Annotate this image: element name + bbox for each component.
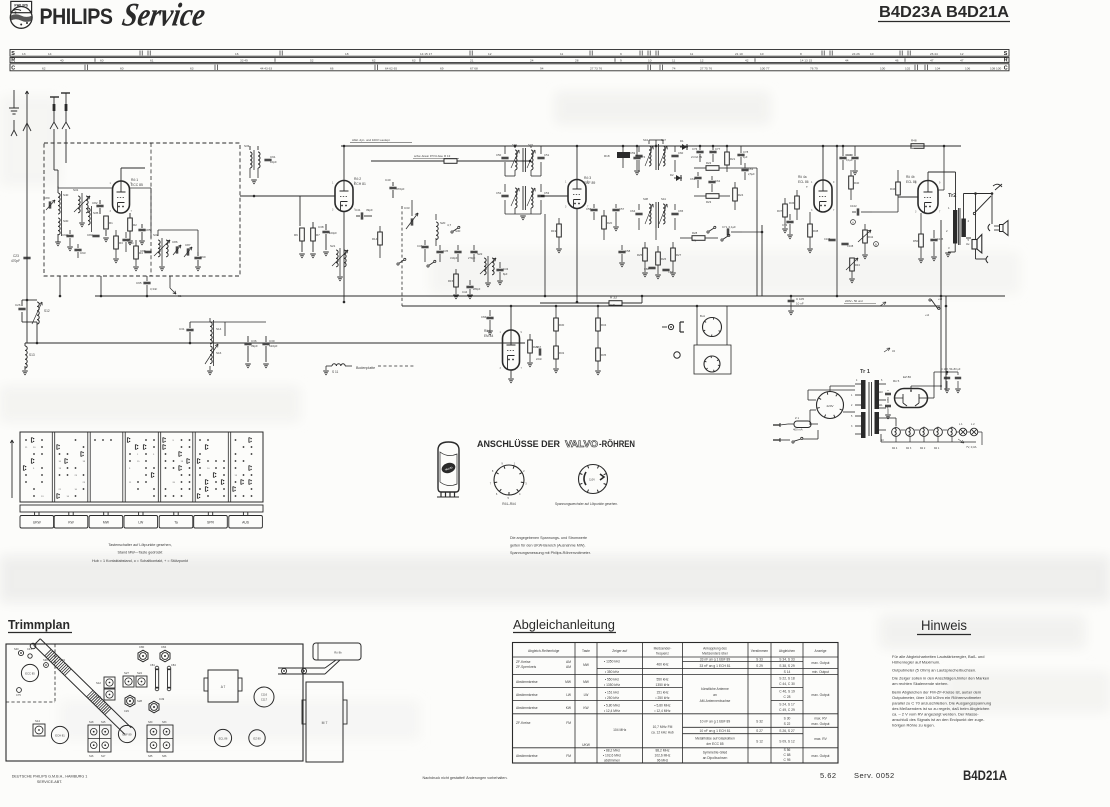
svg-text:Metallhülse auf Glaskolben: Metallhülse auf Glaskolben [695,737,735,741]
svg-text:Outputmeter (5 Ohm) an Lautspr: Outputmeter (5 Ohm) an Lautsprecherbuchs… [892,668,976,673]
resistor R35 [596,348,601,361]
resistor R29 grid [528,340,533,353]
socket Bu1 tape [703,318,722,337]
svg-text:460 kHz: 460 kHz [656,663,668,667]
svg-text:C74: C74 [640,155,646,159]
svg-text:Meßsenders über: Meßsenders über [702,652,729,656]
svg-text:R34: R34 [601,323,607,327]
grid resistor R36 [795,196,800,209]
svg-text:10: 10 [648,58,652,62]
IF can A7 [208,670,238,702]
svg-text:Abstimmkreise: Abstimmkreise [516,706,538,710]
switch assembly lower bar [20,505,263,512]
FM tuner compartment dashed [54,644,56,702]
FM dipole antenna terminals [50,96,59,98]
svg-text:Nachdruck nicht gestattet! Änd: Nachdruck nicht gestattet! Änderungen vo… [422,776,507,780]
svg-text:S16: S16 [89,755,94,758]
svg-text:S 24, S 17: S 24, S 17 [779,703,795,707]
svg-text:R38: R38 [813,229,819,233]
speaker switch contact [976,196,992,212]
volume feed resistor R28 [692,236,705,241]
svg-text:• 5,80 MHz: • 5,80 MHz [654,704,671,708]
circle marker A [851,220,856,225]
svg-text:R22: R22 [706,161,712,165]
svg-text:ECL 86: ECL 86 [906,180,917,184]
svg-text:2,5µF: 2,5µF [748,172,755,176]
svg-text:R32: R32 [559,351,565,355]
trimmer C49 [149,701,159,713]
mains plug prongs [773,424,780,426]
right vertical feeds [940,220,942,390]
capacitor C95 below tuner [143,281,150,283]
svg-text:10 nF: 10 nF [796,302,804,306]
svg-text:C67: C67 [536,345,542,349]
tube U1 Ro1 ECC85 FM tuner triode [113,181,130,213]
svg-text:B4D21A: B4D21A [963,768,1007,783]
svg-text:abstimmen: abstimmen [604,759,620,763]
oscillator section dashed divider [150,143,152,276]
svg-text:21 10: 21 10 [735,52,743,56]
svg-text:L 1: L 1 [959,422,963,426]
svg-text:Outputmeter, über 100 kOhm ein: Outputmeter, über 100 kOhm ein Röhrenvol… [892,695,982,700]
svg-text:R18: R18 [604,154,610,158]
long AVC rail [95,295,1005,297]
svg-text:ECH 81: ECH 81 [55,734,65,738]
wires detector to AF [756,200,758,296]
svg-text:C61: C61 [690,177,696,181]
svg-text:21: 21 [470,58,474,62]
svg-text:24 26: 24 26 [852,52,860,56]
svg-text:11: 11 [672,58,675,62]
resistor R32 [554,346,559,359]
svg-text:C78: C78 [743,150,749,154]
svg-text:220V: 220V [826,404,833,408]
svg-text:KW: KW [68,521,74,525]
svg-text:40: 40 [60,58,64,62]
svg-text:LW: LW [138,521,144,525]
svg-text:Rö 8b: Rö 8b [334,651,342,655]
coil S35 second FM section [88,208,90,225]
svg-text:Service: Service [120,0,209,33]
resistor R18 filled [617,152,630,158]
svg-text:28: 28 [575,58,579,62]
svg-text:an: an [713,693,717,697]
trimmer C87 [186,248,188,255]
tuning gang C33 [410,218,412,225]
svg-text:max. Output: max. Output [812,754,830,758]
svg-text:C108: C108 [847,244,854,248]
svg-text:10: 10 [760,52,764,56]
capacitor C74 [633,156,640,158]
svg-text:EZ 80: EZ 80 [903,375,911,379]
svg-text:Abkl. dyn. und 100V Lautspr.: Abkl. dyn. und 100V Lautspr. [352,138,391,142]
screen feed resistor R13 [371,160,444,162]
svg-text:106: 106 [965,66,970,70]
svg-text:R3: R3 [119,241,123,245]
svg-text:Die Zeiger sollen in den Ansch: Die Zeiger sollen in den Anschlägen,hint… [892,676,989,681]
svg-text:11: 11 [690,52,693,56]
svg-text:C80: C80 [44,196,50,200]
svg-text:C50: C50 [496,153,502,157]
svg-text:33 nF an g 1 ECH 81: 33 nF an g 1 ECH 81 [700,664,731,668]
capacitor C30 [262,342,269,344]
svg-text:27 73 76: 27 73 76 [590,66,602,70]
svg-text:C: C [1004,66,1008,72]
svg-text:ZF-Sperrkreis: ZF-Sperrkreis [516,665,536,669]
svg-text:C38: C38 [318,225,324,229]
pickup plug symbol [668,324,673,329]
svg-text:S 33: S 33 [756,658,763,662]
svg-text:Die angegebenen Spannungs- und: Die angegebenen Spannungs- und Stromwert… [510,536,587,540]
speaker switch jack [993,184,1002,187]
svg-text:550 kHz: 550 kHz [656,678,668,682]
capacitor C40 470pF [389,186,396,188]
svg-text:S: S [1004,51,1008,57]
trimmer C75 on chassis [17,688,22,693]
capacitor C77 [709,150,716,152]
svg-text:S12: S12 [96,681,101,685]
svg-text:S44: S44 [643,138,648,142]
capacitor C103 [839,156,846,158]
cathode resistor R50 [919,234,924,247]
svg-text:S 09, S 12: S 09, S 12 [779,740,795,744]
svg-text:Abstimmkreise: Abstimmkreise [516,680,538,684]
svg-text:• 550 kHz: • 550 kHz [605,678,620,682]
svg-text:R37: R37 [777,209,783,213]
svg-text:S 30: S 30 [784,717,791,721]
volume pot R42 [863,230,868,243]
svg-text:R35: R35 [601,353,607,357]
tube U5 Ro5 EZ80 rectifier [895,389,928,408]
svg-text:MW: MW [583,680,590,684]
svg-text:S20: S20 [440,221,446,225]
svg-text:27 75 76: 27 75 76 [700,66,712,70]
svg-text:C85: C85 [145,228,151,232]
external loudspeaker symbol [1000,225,1004,232]
tube U3 Ro3 EBF89 IF amp [568,180,586,209]
capacitor C76 [696,150,703,152]
svg-text:R: R [11,57,15,63]
svg-text:C116: C116 [261,693,268,697]
svg-text:C107: C107 [824,237,831,241]
alignment table grid [513,643,839,764]
capacitor C43 [496,268,503,270]
svg-text:C59: C59 [630,151,636,155]
EBF89 cathode wiring [576,209,578,302]
svg-text:470pF: 470pF [11,259,20,263]
svg-text:R 13: R 13 [444,154,451,158]
wire anode ECC85 [120,168,122,181]
svg-text:+13: +13 [938,298,943,301]
svg-text:gelten für den UKW-Bereich (Au: gelten für den UKW-Bereich (Ausnahme MW)… [510,544,586,548]
svg-text:10: 10 [870,52,874,56]
svg-text:Symmetrie-Glied: Symmetrie-Glied [703,751,728,755]
svg-text:R30: R30 [559,323,565,327]
capacitor C61 [694,176,701,178]
svg-text:64 62 65: 64 62 65 [385,66,397,70]
keyboard switch assembly frame [20,432,263,502]
svg-text:AUS: AUS [242,521,250,525]
svg-text:Für alle Abgleicharbeiten Laut: Für alle Abgleicharbeiten Lautstärkeregl… [892,654,985,659]
tube U4b Ro4 ECL86 pentode [918,181,938,214]
svg-text:510pF: 510pF [269,344,278,348]
svg-text:C62: C62 [715,179,721,183]
svg-text:AM-Antennenbuchse: AM-Antennenbuchse [700,699,731,703]
svg-text:S15: S15 [101,721,106,724]
svg-text:R28: R28 [692,231,698,235]
svg-text:S33: S33 [244,144,250,148]
capacitor C92 [66,234,73,236]
heater bus [880,434,882,442]
svg-text:VALVO: VALVO [565,439,598,449]
speaker feed wires [975,194,977,240]
svg-text:Hub = 1 Kontaktabstand, o = Sc: Hub = 1 Kontaktabstand, o = Schaltkontak… [92,559,188,563]
svg-text:12: 12 [488,52,492,56]
svg-text:14 15 17: 14 15 17 [420,52,432,56]
svg-text:3w: 3w [966,242,969,246]
bodenplatte coil S11 [332,364,345,366]
detector caps [648,266,655,268]
svg-text:C26: C26 [15,303,21,307]
transformer Tr2 primary winding [953,210,957,244]
svg-text:C83: C83 [87,233,93,237]
svg-text:MW: MW [565,680,572,684]
svg-text:R25: R25 [637,253,643,257]
svg-text:C76: C76 [692,147,698,151]
tone caps [828,238,835,240]
svg-text:Rö 4a: Rö 4a [798,175,807,179]
svg-text:C117: C117 [261,698,268,702]
svg-text:12: 12 [960,52,964,56]
svg-text:4,7: 4,7 [447,223,452,227]
svg-text:SPR: SPR [207,521,215,525]
tube EBF89 location [118,725,135,742]
coil S12 with damping [18,307,25,309]
svg-text:C: C [11,66,15,72]
pentode grid wire [897,170,899,176]
capacitor C36 [244,342,251,344]
svg-text:C29: C29 [124,709,129,713]
svg-text:L 2: L 2 [971,422,975,426]
dial pointer bracket [278,667,325,669]
svg-text:MW: MW [583,663,590,667]
svg-text:+14: +14 [925,314,930,317]
trimmer S28 [125,695,135,707]
capacitor C37 270pF [470,250,477,252]
coil S40 FM antenna transformer [58,193,60,214]
svg-text:C73: C73 [782,223,788,227]
svg-text:• 151 kHz: • 151 kHz [605,691,620,695]
rectifier caps C100 C101 [885,392,891,394]
svg-text:S41: S41 [661,197,666,201]
svg-text:400 mA: 400 mA [793,428,803,432]
svg-text:270pF: 270pF [468,256,476,260]
screw S27 [123,676,134,687]
svg-text:16: 16 [235,52,239,56]
svg-text:C 105: C 105 [796,297,804,301]
svg-text:C92: C92 [62,233,68,237]
IF screw block S18 S15 S16 S17 [88,725,111,752]
svg-text:ECL 86: ECL 86 [798,180,809,184]
svg-text:des Meßsenders ist so zu regel: des Meßsenders ist so zu regeln, daß bei… [892,706,989,711]
svg-text:hörigen Röhre zu legen.: hörigen Röhre zu legen. [892,722,935,727]
screen wire [938,189,944,191]
svg-text:S22: S22 [477,252,483,256]
svg-text:S16: S16 [216,351,222,355]
svg-text:S28: S28 [137,699,142,703]
svg-text:96 MHz: 96 MHz [657,759,669,763]
svg-text:104 MHz: 104 MHz [613,728,627,732]
wire gang dashed link [401,298,403,306]
svg-text:Beim Abgleichen der FM-ZF-Krei: Beim Abgleichen der FM-ZF-Kreise ist, au… [892,689,982,694]
svg-text:R7: R7 [316,233,320,237]
svg-text:Rö 1: Rö 1 [934,447,940,450]
svg-text:R36: R36 [789,201,795,205]
svg-text:S 22: S 22 [784,722,791,726]
valve drawing VALVO tube [438,442,459,492]
svg-text:S17: S17 [101,755,106,758]
coil S13 to ground [25,346,27,368]
svg-text:• 250 kHz: • 250 kHz [655,696,670,700]
svg-text:A: A [852,221,854,225]
trimmer C80 top [138,650,148,662]
resistor R6 AGC [300,228,305,241]
svg-text:C30: C30 [269,339,275,343]
svg-text:310pF: 310pF [450,256,458,260]
svg-text:C87: C87 [185,243,191,247]
svg-text:67 68: 67 68 [470,66,478,70]
svg-text:Serv. 0052: Serv. 0052 [854,771,895,780]
ECL86 triode anode wire [822,146,824,180]
svg-text:R24: R24 [738,193,744,197]
svg-text:ca. – 2 V vom RV angezeigt wer: ca. – 2 V vom RV angezeigt werden. Der M… [892,711,979,716]
switch contact dots and bridges [25,439,27,441]
grid stopper R46 [896,182,901,195]
svg-text:C 44, C 30: C 44, C 30 [779,682,795,686]
svg-text:• 12,4 MHz: • 12,4 MHz [604,709,621,713]
AM IF transformer lower S38 S41 [649,204,651,224]
svg-text:10,7 MHz FM: 10,7 MHz FM [653,725,673,729]
svg-text:• 12,4 MHz: • 12,4 MHz [654,709,671,713]
IF transformer T1 lower [515,188,517,208]
svg-text:7V, 0,3A: 7V, 0,3A [966,445,977,449]
capacitor C58 [618,250,625,252]
svg-text:R2: R2 [133,223,137,227]
svg-text:R50: R50 [913,239,919,243]
svg-text:C41: C41 [27,647,32,651]
svg-text:S 56: S 56 [784,748,791,752]
ferrite rod capacitor C31 [186,328,193,330]
svg-text:63: 63 [190,66,194,70]
svg-text:Abstimmkreise: Abstimmkreise [516,693,538,697]
resistor R21 [725,152,730,165]
selector wiring [808,399,816,401]
svg-text:S14: S14 [216,327,222,331]
svg-text:S27: S27 [124,671,129,675]
svg-text:R: R [1004,57,1008,63]
mains switch [792,441,794,443]
fuse Z1 400mA [794,421,811,428]
speaker return wire [975,249,977,259]
svg-text:C 95: C 95 [784,758,791,762]
svg-text:1350 kHz: 1350 kHz [656,683,670,687]
svg-text:470pF: 470pF [396,187,405,191]
secondary rail [402,305,940,307]
svg-text:12: 12 [700,58,704,62]
svg-text:C66: C66 [481,315,487,319]
svg-text:C40: C40 [385,178,391,182]
svg-text:Abgleichanleitung: Abgleichanleitung [513,618,615,632]
wire det output [655,228,657,240]
svg-text:AM: AM [566,660,571,664]
HT feed arrows [884,348,890,352]
svg-text:39pF: 39pF [366,208,373,212]
svg-text:C100: C100 [845,153,852,157]
svg-text:anschluß des Signals ist an de: anschluß des Signals ist an den Endpunkt… [892,717,985,722]
FM tuner dashed enclosure [44,143,240,276]
feedback resistor R48 [911,144,924,149]
svg-text:R19: R19 [551,229,557,233]
band switch dashed line [401,206,403,298]
dial cord / scale strip S R C [10,50,1009,57]
speaker switch rail [964,193,993,195]
svg-text:max. Output: max. Output [812,693,830,697]
grid resistor R1 [104,216,109,229]
svg-text:ZF-Kreise: ZF-Kreise [516,660,531,664]
diode D1 ratio detector [680,146,688,148]
svg-text:B: B [875,243,877,247]
svg-text:100 77: 100 77 [760,66,770,70]
svg-text:100: 100 [880,66,885,70]
svg-text:C60: C60 [678,151,684,155]
trimmer S40 on chassis [18,650,23,655]
svg-text:S21: S21 [330,244,336,248]
svg-text:63: 63 [412,58,416,62]
svg-text:Abstimmkreise: Abstimmkreise [516,754,538,758]
capacitor C78 1uF [737,153,744,155]
svg-text:C68: C68 [644,267,649,271]
AM antenna with arrow [26,91,28,118]
capacitor C62 [708,180,715,182]
svg-text:MW: MW [103,521,110,525]
svg-text:S30: S30 [148,721,153,724]
electrolytic C63 [741,168,748,170]
oscillator coil S32 [158,240,160,257]
travel arrow [11,440,13,498]
svg-text:D1: D1 [680,139,684,143]
svg-text:Trimmplan: Trimmplan [8,618,70,632]
svg-text:Rö 3: Rö 3 [584,176,591,180]
svg-text:C84: C84 [171,663,176,667]
svg-text:151 kHz: 151 kHz [656,691,668,695]
svg-text:46: 46 [895,58,899,62]
svg-text:9: 9 [620,58,622,62]
svg-text:ECL 86: ECL 86 [219,737,228,741]
svg-text:220V~ 50 und: 220V~ 50 und [845,299,863,303]
svg-text:am rechten Skalenende stehen.: am rechten Skalenende stehen. [892,681,948,686]
coil S20 oscillator [436,222,438,240]
svg-text:FM: FM [566,754,571,758]
Philips shield logo [10,1,32,28]
svg-text:S18: S18 [89,721,94,724]
screw S14 [33,724,45,736]
tube ECC85 location [21,664,38,681]
svg-text:Rö 5: Rö 5 [893,379,900,383]
wire T1 to EBF89 grid [541,195,568,197]
capacitor C56 [590,208,597,210]
svg-text:C33: C33 [404,206,410,210]
svg-text:Höhenregler auf Maximum.: Höhenregler auf Maximum. [892,660,940,665]
